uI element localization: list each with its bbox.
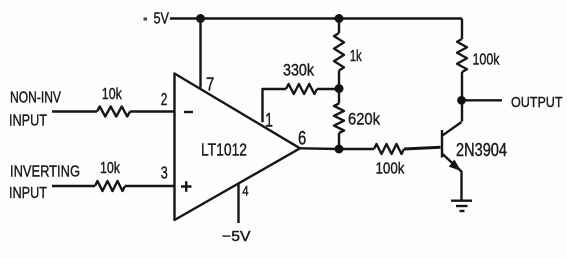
svg-text:100k: 100k [473, 52, 500, 69]
svg-text:INPUT: INPUT [9, 113, 47, 130]
node: 1k / 330k / 620k junction [335, 84, 344, 93]
wire: +5V rail (top) [170, 17, 462, 19]
wire: 100k to transistor base [404, 147, 441, 149]
wire: non-inv input lead [52, 110, 97, 112]
svg-text:5V: 5V [154, 11, 170, 28]
wire: rail corner down to 100k (pull-up) [461, 19, 463, 40]
wire: 1k bottom to junction [338, 71, 340, 89]
wire: op-amp output to 100k [300, 147, 374, 150]
svg-text:10k: 10k [102, 86, 123, 103]
wire: 330k to 1k/620k junction [317, 88, 339, 90]
op-amp U1 triangle [175, 74, 301, 221]
node: output junction [457, 96, 466, 105]
transistor emitter arrowhead [449, 160, 461, 172]
resistor 10k (non-inverting input) [97, 107, 130, 117]
resistor 100k (pull-up) [457, 39, 467, 72]
node: pin 6 / 620k / 100k junction [335, 145, 344, 154]
resistor 100k (base) [374, 144, 404, 154]
svg-text:NON-INV: NON-INV [10, 90, 62, 107]
ground symbol [451, 201, 472, 211]
svg-text:−5V: −5V [222, 229, 251, 245]
node: rail junction to pin 7 [196, 14, 205, 23]
svg-text:6: 6 [298, 129, 306, 150]
svg-text:620k: 620k [348, 111, 381, 129]
wire: inverting input lead [52, 185, 95, 187]
resistor 1k [334, 33, 344, 71]
wire: 10k to pin 3 [125, 185, 175, 187]
resistor 10k (inverting input) [95, 181, 125, 191]
transistor emitter lead [442, 154, 462, 201]
wire: 620k bottom to pin 6 node [338, 133, 340, 149]
wire: rail down to op-amp pin 7 [199, 19, 201, 88]
wire: output node to OUTPUT label [465, 99, 502, 101]
pin 4 wire to -5V [237, 184, 239, 223]
wire: pin 1 up and right to 330k [263, 89, 287, 122]
plus sign at pin 3 input [181, 181, 192, 191]
svg-text:LT1012: LT1012 [201, 139, 247, 159]
resistor 620k [334, 104, 344, 134]
wire: junction to 620k top [338, 89, 340, 104]
wire: rail to 1k top [338, 19, 340, 34]
svg-text:INVERTING: INVERTING [10, 164, 80, 181]
svg-text:1k: 1k [350, 48, 362, 65]
svg-text:10k: 10k [100, 160, 121, 177]
+5V supply label [144, 11, 170, 28]
minus sign at pin 2 input [184, 111, 193, 113]
svg-text:INPUT: INPUT [9, 185, 47, 202]
svg-text:2: 2 [161, 89, 168, 109]
svg-text:OUTPUT: OUTPUT [511, 95, 563, 111]
svg-text:3: 3 [161, 163, 168, 183]
wire: 100k bottom through output node to collector [461, 72, 463, 122]
svg-text:4: 4 [242, 183, 248, 199]
transistor collector lead [442, 122, 462, 136]
resistor 330k [286, 84, 317, 94]
node: rail junction to 1k [335, 14, 344, 23]
svg-text:2N3904: 2N3904 [456, 140, 507, 160]
svg-text:1: 1 [265, 110, 273, 132]
svg-text:330k: 330k [283, 62, 315, 80]
wire: 10k to pin 2 [130, 110, 175, 112]
svg-text:7: 7 [206, 74, 214, 95]
svg-text:100k: 100k [376, 161, 406, 178]
transistor Q1 2N3904 base bar [441, 130, 443, 158]
